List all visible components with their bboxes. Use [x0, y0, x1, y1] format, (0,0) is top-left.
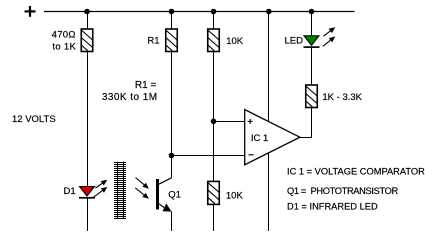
wire R 1K-3.3K to op-amp output [311, 108, 313, 138]
svg-text:470Ω: 470Ω [52, 29, 76, 40]
resistor 1K-3.3K [306, 85, 318, 108]
transistor Q1 phototransistor [156, 178, 172, 212]
wire junction to op-amp noninverting input [214, 121, 245, 123]
junction node branch A [84, 9, 90, 15]
wire branch D rail to bottom edge [268, 12, 270, 232]
wire rail to 10K top [213, 12, 215, 30]
svg-text:10K: 10K [226, 191, 244, 202]
wire D1 to bottom [87, 198, 89, 231]
svg-text:R1 =: R1 = [135, 80, 157, 91]
wire Q1 emitter to bottom [171, 211, 173, 231]
wire junction to op-amp inverting input [172, 155, 245, 157]
wire 10K bottom to bottom edge [213, 204, 215, 231]
svg-text:IC 1 = VOLTAGE COMPARATOR: IC 1 = VOLTAGE COMPARATOR [287, 166, 425, 176]
wire R470 to D1 [87, 52, 89, 187]
junction node branch C [211, 9, 217, 15]
junction node branch E [309, 9, 315, 15]
light arrow from LED upper [324, 30, 332, 36]
light arrow into Q1 upper [136, 178, 146, 186]
wire rail to LED [311, 12, 313, 37]
svg-text:330K to 1M: 330K to 1M [102, 92, 158, 103]
svg-text:R1: R1 [147, 35, 159, 46]
svg-text:D1 = INFRARED LED: D1 = INFRARED LED [287, 202, 378, 212]
svg-text:12 VOLTS: 12 VOLTS [12, 114, 56, 125]
wire LED to R 1K-3.3K [311, 47, 313, 85]
wire rail to R 470 [87, 12, 89, 30]
svg-text:D1: D1 [64, 186, 76, 197]
junction node branch D [266, 9, 272, 15]
resistor R1 [166, 29, 178, 52]
light arrow from LED lower [323, 39, 332, 46]
svg-text:1K - 3.3K: 1K - 3.3K [322, 92, 362, 103]
wire op-amp output [300, 137, 313, 139]
junction node inverting input [169, 153, 175, 159]
junction node noninverting input [211, 119, 217, 125]
diode D1 infrared LED [79, 187, 95, 198]
shutter grating strip [114, 162, 126, 219]
resistor 10K top [208, 29, 220, 52]
resistor 10K bottom [208, 181, 220, 204]
plus terminal + [25, 6, 36, 17]
wire 10K top to 10K bottom [213, 52, 215, 182]
svg-text:to 1K: to 1K [52, 41, 76, 52]
svg-text:LED: LED [285, 36, 304, 47]
resistor 470ohm-1K [81, 29, 93, 52]
junction node branch B [169, 9, 175, 15]
wire rail to R1 [171, 12, 173, 30]
light arrow from D1 lower [92, 190, 103, 198]
wire R1 to collector junction [171, 52, 173, 178]
value label 470ohm to 1K [52, 29, 77, 52]
value label R1 = 330K to 1M [102, 80, 158, 103]
light arrow from D1 upper [96, 183, 104, 188]
LED green indicator [304, 36, 320, 47]
svg-text:10K: 10K [226, 36, 244, 47]
svg-text:Q1 = PHOTOTRANSISTOR: Q1 = PHOTOTRANSISTOR [287, 186, 399, 196]
svg-text:Q1: Q1 [168, 189, 181, 200]
light arrow into Q1 lower [135, 188, 145, 196]
op-amp IC1 voltage comparator [245, 110, 300, 165]
svg-text:IC 1: IC 1 [251, 133, 268, 144]
wire top positive rail [44, 11, 355, 13]
